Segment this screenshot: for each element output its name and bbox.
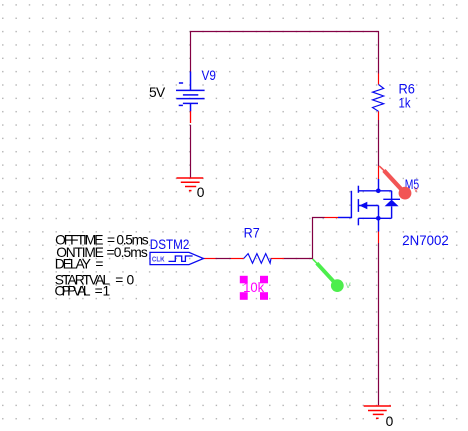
svg-text:=: = xyxy=(115,272,123,287)
svg-text:OPPVAL: OPPVAL xyxy=(55,284,91,299)
resistor R7 xyxy=(244,254,271,264)
resistor R6 bottom pin xyxy=(378,111,380,120)
battery V9 bottom pin xyxy=(190,111,192,123)
wire M5 source to ground xyxy=(378,243,380,405)
body arrow head xyxy=(359,202,367,210)
wire battery bottom to ground xyxy=(190,125,192,178)
svg-text:=: = xyxy=(95,284,103,299)
source rail xyxy=(358,217,391,219)
resistor R7 right pin xyxy=(271,258,284,260)
transistor M5 (2N7002 NMOS with body diode) xyxy=(338,179,400,232)
drain rail xyxy=(358,190,391,192)
svg-text:=: = xyxy=(95,257,103,272)
svg-text:10k: 10k xyxy=(243,280,264,295)
svg-text:DSTM2: DSTM2 xyxy=(150,237,190,252)
transistor M5 source pin xyxy=(378,232,380,244)
svg-text:R7: R7 xyxy=(244,225,260,240)
body-to-source vertical xyxy=(378,206,380,219)
wire top rail V9 to R6 xyxy=(191,32,379,74)
body diode cathode bar xyxy=(383,198,400,200)
wire R7 to M5 gate xyxy=(284,218,325,259)
svg-text:v: v xyxy=(346,279,352,291)
drain blue stub xyxy=(378,179,380,191)
svg-text:1k: 1k xyxy=(399,96,411,111)
wire R6 bottom to M5 drain xyxy=(378,120,380,166)
channel dashes xyxy=(357,186,359,193)
junction dot source node xyxy=(376,216,381,221)
voltage probe at drain (red) xyxy=(379,166,418,200)
stimulus parameter text xyxy=(55,232,149,298)
resistor R7 left pin xyxy=(231,258,244,260)
svg-text:0: 0 xyxy=(386,414,394,429)
stimulus DSTM2 output pin xyxy=(204,258,216,260)
battery V9 xyxy=(176,72,205,112)
gate bar xyxy=(350,191,352,218)
body diode triangle xyxy=(385,200,399,207)
svg-text:2N7002: 2N7002 xyxy=(402,233,449,248)
gate pin blue stub xyxy=(338,217,351,219)
svg-text:V9: V9 xyxy=(202,68,217,83)
svg-text:DELAY: DELAY xyxy=(55,257,91,272)
transistor M5 drain pin xyxy=(378,166,380,179)
wire DSTM2 to R7 xyxy=(216,258,232,260)
voltage probe at gate node (green) xyxy=(313,259,352,292)
svg-text:0: 0 xyxy=(197,185,205,200)
ground 0 below battery xyxy=(177,178,204,191)
svg-text:v: v xyxy=(414,185,418,194)
svg-text:5V: 5V xyxy=(149,85,166,100)
svg-text:1: 1 xyxy=(103,284,111,299)
junction dot drain node xyxy=(376,189,381,194)
svg-text:CLK: CLK xyxy=(152,254,165,263)
ground 0 below M5 source xyxy=(364,406,391,418)
svg-text:0.5ms: 0.5ms xyxy=(114,245,148,260)
body rail with arrow xyxy=(358,205,378,207)
svg-text:0: 0 xyxy=(127,272,135,287)
svg-text:R6: R6 xyxy=(399,82,416,97)
DSTM2 clock waveform glyph xyxy=(169,256,193,261)
resistor R6 top pin xyxy=(378,74,380,85)
transistor M5 gate pin xyxy=(325,217,339,219)
source blue stub xyxy=(378,218,380,231)
selected value label 10k with selection handles xyxy=(240,276,268,300)
body diode branch verticals xyxy=(391,191,393,200)
stimulus DSTM2 xyxy=(150,252,204,264)
resistor R6 xyxy=(373,85,384,112)
